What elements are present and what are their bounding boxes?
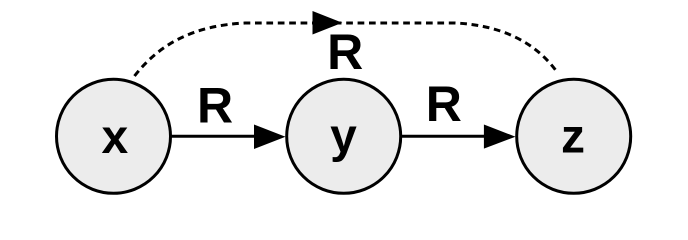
svg-text:x: x <box>101 111 128 164</box>
dashed edge x->z (curve) <box>135 23 558 76</box>
arrowhead x->y <box>254 125 286 150</box>
wire: edge x->y line <box>172 135 257 138</box>
node z (circle) <box>517 79 631 193</box>
node x (circle) <box>57 79 171 193</box>
svg-text:y: y <box>330 110 357 163</box>
svg-text:R: R <box>197 77 233 133</box>
arrowhead of dashed edge (mid-top) <box>313 11 343 35</box>
svg-text:z: z <box>561 111 585 164</box>
svg-text:R: R <box>327 24 363 80</box>
arrowhead y->z <box>484 125 516 149</box>
node y (circle) <box>287 79 401 193</box>
svg-text:R: R <box>426 76 462 132</box>
wire: edge y->z line <box>402 135 487 138</box>
